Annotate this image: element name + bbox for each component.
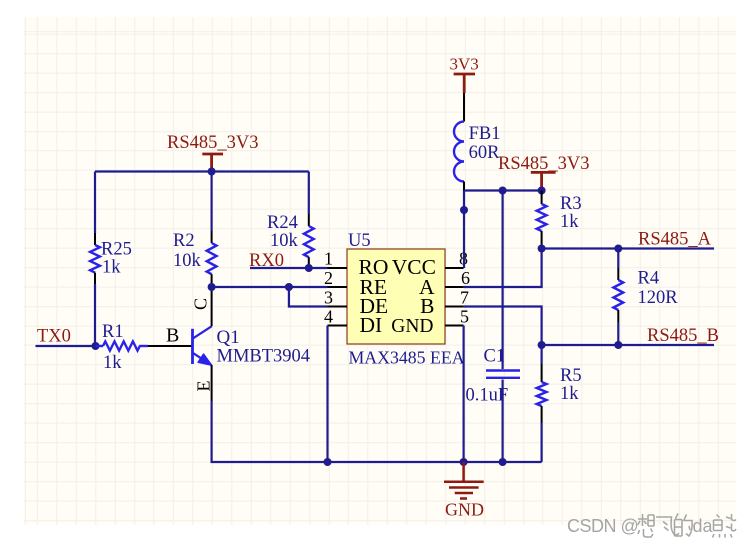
wire RX0 row [250, 267, 328, 269]
junction C1 column top [499, 187, 507, 195]
transistor Q1 base pin [148, 345, 192, 347]
wire top-left rail RS485_3V3 [95, 170, 309, 172]
watermark char xiang [638, 514, 655, 537]
watermark char de [675, 514, 693, 537]
ground symbol [444, 462, 484, 499]
svg-text:C: C [191, 298, 211, 310]
junction B node [538, 341, 546, 349]
watermark char fei [656, 517, 679, 535]
wire FB1 to pin 8 [463, 191, 465, 269]
resistor R1 [96, 341, 149, 350]
svg-text:RX0: RX0 [249, 251, 284, 271]
junction rail/R2 [208, 168, 216, 176]
svg-text:1k: 1k [103, 353, 122, 373]
junction C1/bottom rail [499, 458, 507, 466]
wire pin 7 to B [464, 307, 542, 346]
svg-text:da: da [693, 516, 714, 536]
svg-text:DI: DI [360, 313, 383, 337]
junction GND node [460, 458, 468, 466]
power symbol RS485_3V3 left [202, 154, 223, 172]
pin 3 stub [328, 306, 348, 308]
svg-text:6: 6 [461, 268, 470, 288]
svg-text:RS485_3V3: RS485_3V3 [498, 154, 590, 174]
svg-text:R25: R25 [101, 240, 132, 260]
wire VCC rail [464, 189, 542, 191]
resistor R4 [613, 249, 623, 346]
transistor Q1 [193, 326, 212, 365]
resistor R25 [90, 233, 100, 284]
svg-text:1k: 1k [102, 258, 121, 278]
svg-text:GND: GND [391, 316, 433, 337]
wire emitter to bottom rail [212, 401, 542, 462]
watermark char xiong [713, 514, 737, 538]
svg-text:3: 3 [324, 288, 333, 308]
svg-text:4: 4 [324, 307, 333, 327]
svg-text:1k: 1k [560, 212, 579, 232]
wire DI column [326, 326, 328, 463]
svg-text:CSDN @: CSDN @ [567, 516, 638, 536]
svg-text:RS485_3V3: RS485_3V3 [167, 133, 259, 153]
svg-text:120R: 120R [638, 288, 679, 308]
pin 2 stub [328, 286, 348, 288]
resistor R24 [304, 214, 314, 268]
transistor emitter pin [211, 365, 213, 401]
svg-text:B: B [166, 325, 179, 347]
resistor R5 [537, 345, 547, 423]
svg-text:FB1: FB1 [469, 124, 501, 144]
svg-text:RS485_B: RS485_B [647, 326, 719, 346]
svg-text:1: 1 [324, 249, 333, 269]
svg-text:3V3: 3V3 [450, 55, 479, 74]
wire R25 column lower [94, 284, 96, 346]
svg-text:60R: 60R [469, 143, 501, 163]
wire pin 5 to bottom rail [463, 326, 465, 463]
resistor R3 [537, 191, 547, 249]
wire R5 to bottom rail [540, 423, 542, 462]
svg-text:B: B [420, 294, 434, 318]
svg-text:7: 7 [460, 288, 469, 308]
wire C1 column lower [502, 380, 504, 463]
svg-text:R5: R5 [560, 366, 582, 386]
pin 7 stub [445, 306, 464, 308]
svg-text:MMBT3904: MMBT3904 [217, 347, 311, 367]
svg-text:2: 2 [324, 268, 333, 288]
inductor FB1 pin bottom [463, 182, 465, 191]
junction VCC rail / R3 [538, 187, 546, 195]
junction DE branch [285, 283, 293, 291]
resistor R2 [207, 231, 217, 287]
svg-text:10k: 10k [173, 251, 202, 271]
wire RE row [212, 286, 328, 288]
wire C1 column upper [502, 191, 504, 370]
wire R25 column upper [94, 172, 96, 234]
svg-text:R24: R24 [267, 213, 298, 233]
power symbol RS485_3V3 right [531, 172, 556, 190]
svg-text:10k: 10k [270, 231, 299, 251]
svg-text:R3: R3 [560, 194, 582, 214]
pin 4 stub [328, 325, 348, 327]
junction DI/bottom rail [324, 458, 332, 466]
wire R2 column upper [211, 172, 213, 232]
svg-text:MAX3485 EEA: MAX3485 EEA [349, 348, 465, 368]
svg-text:Q1: Q1 [217, 327, 240, 348]
junction A node [538, 245, 546, 253]
wire RS485_B [542, 344, 714, 346]
wire R24 column upper [308, 172, 310, 215]
svg-text:C1: C1 [484, 347, 506, 367]
ic U5 body [347, 249, 445, 344]
svg-text:1k: 1k [560, 384, 579, 404]
svg-text:5: 5 [460, 307, 469, 327]
wire RS485_A [542, 247, 714, 249]
pin 8 stub [445, 267, 464, 269]
wire DE branch [289, 287, 328, 307]
wire pin 6 to A [464, 249, 542, 288]
svg-text:TX0: TX0 [37, 327, 71, 347]
pin 6 stub [445, 286, 464, 288]
junction TX0/R25 [92, 342, 100, 350]
svg-text:R2: R2 [173, 231, 195, 251]
junction R24/RX0 [305, 264, 313, 272]
svg-text:R1: R1 [102, 322, 124, 342]
junction R4 bottom [614, 341, 622, 349]
svg-text:R4: R4 [638, 269, 660, 289]
wire TX0 [36, 345, 96, 347]
power symbol 3V3 [454, 74, 475, 93]
svg-text:E: E [194, 381, 214, 392]
svg-text:RS485_A: RS485_A [638, 230, 712, 250]
pin 5 stub [445, 325, 464, 327]
pin 1 stub [328, 267, 348, 269]
junction below FB1 [460, 206, 468, 214]
transistor collector pin [211, 287, 213, 326]
inductor FB1 [454, 122, 464, 182]
capacitor C1 [486, 371, 520, 378]
inductor FB1 pin top [463, 93, 465, 122]
svg-text:U5: U5 [348, 231, 371, 251]
junction R2/RE wire [208, 283, 216, 291]
svg-text:GND: GND [445, 500, 484, 520]
junction R4 top [614, 245, 622, 253]
